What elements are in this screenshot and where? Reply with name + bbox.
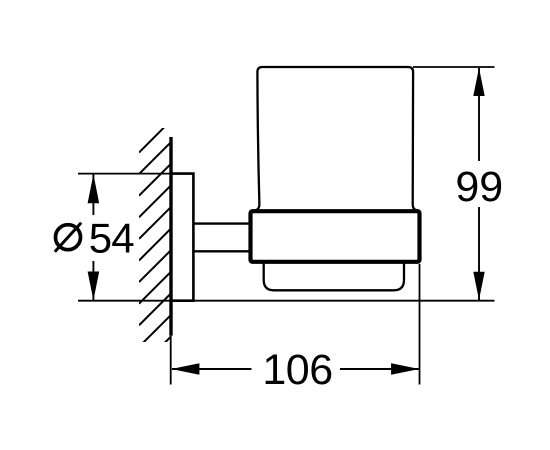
extension line right (dim 106, below holder): [419, 264, 421, 385]
extension line top of plate (dim Ø54): [78, 173, 171, 175]
arm: [193, 224, 251, 252]
wall hatching: [139, 121, 171, 369]
holder (thick ring, side view): [251, 211, 420, 262]
svg-text:99: 99: [455, 163, 503, 211]
svg-text:54: 54: [89, 215, 135, 262]
label Ø54: [55, 223, 81, 252]
dimension 99: vertical dimension line with arrows: [473, 68, 484, 300]
extension line top right (dim 99): [413, 66, 495, 68]
wall plate (escutcheon): [171, 174, 193, 301]
dimension Ø54: vertical dimension line with arrows: [88, 174, 100, 300]
glass foot (rounded bottom visible below holder): [264, 260, 404, 290]
bottom extension line (shared by Ø54 and 99): [78, 300, 495, 302]
dimension 106: horizontal dimension line with arrows: [171, 363, 419, 374]
extension line left (dim 106, below wall): [170, 336, 172, 385]
wall line: [169, 137, 172, 336]
svg-text:106: 106: [262, 346, 332, 394]
glass (tumbler): [256, 67, 417, 212]
